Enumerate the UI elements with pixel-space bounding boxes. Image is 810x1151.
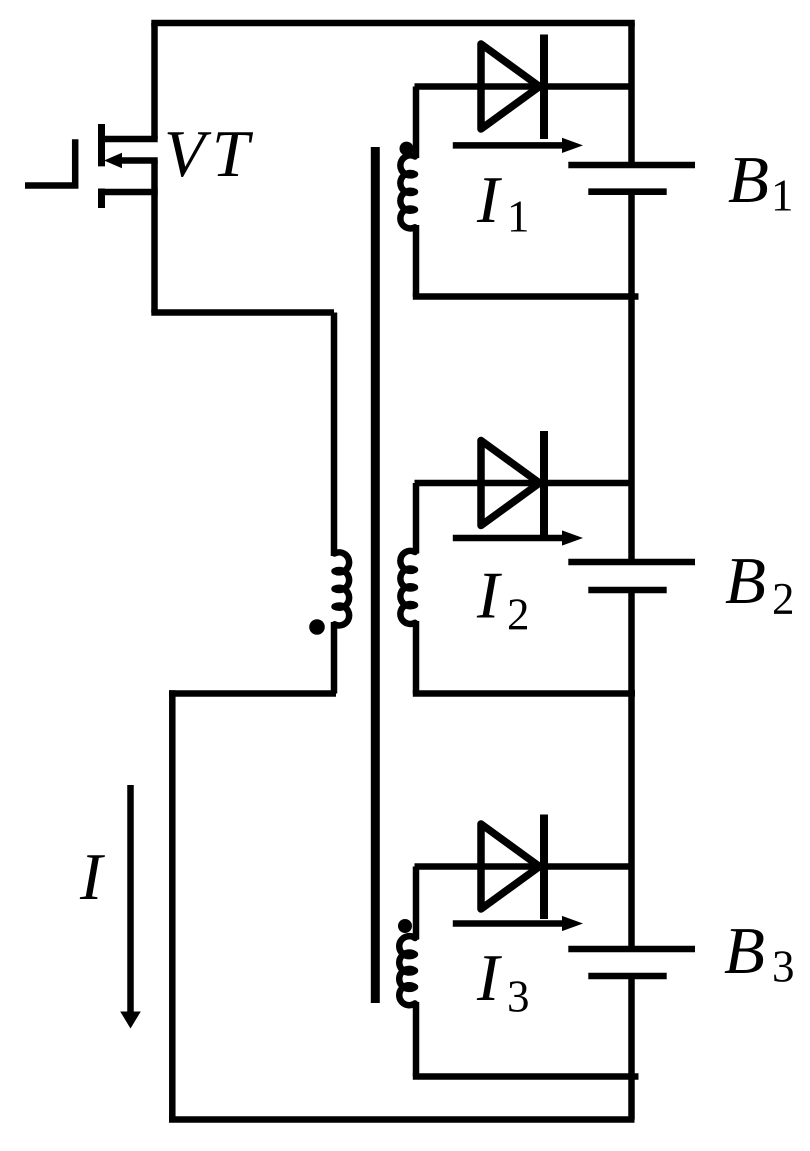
svg-text:I: I	[79, 840, 105, 914]
diode VD1 anode-cathode wire	[415, 83, 632, 90]
transformer secondary 3 phase dot	[398, 919, 412, 933]
transistor Q VT channel bar lower segment	[98, 189, 105, 209]
current arrow I1	[453, 142, 566, 149]
transistor Q VT drain stub	[99, 136, 158, 143]
wire source vertical	[151, 161, 158, 313]
svg-text:VT: VT	[164, 117, 256, 191]
svg-text:I: I	[476, 941, 502, 1015]
wire right rail segment 2	[628, 192, 635, 562]
battery B1 long plate	[568, 162, 695, 169]
svg-text:I: I	[476, 559, 502, 633]
transistor Q VT channel bar upper segment	[98, 124, 105, 166]
wire right rail segment 1	[628, 23, 635, 165]
current arrow I (main)	[127, 785, 134, 1013]
current arrow I2	[453, 535, 566, 542]
current arrow I3	[453, 920, 566, 927]
svg-text:1: 1	[771, 171, 794, 221]
svg-text:1: 1	[507, 192, 530, 242]
diode VD2 triangle	[481, 441, 540, 526]
battery B2 short plate	[588, 587, 666, 594]
wire loop 2 bottom	[413, 690, 635, 697]
transformer secondary winding L1	[400, 155, 415, 228]
svg-text:2: 2	[772, 574, 795, 624]
diode VD1 cathode bar	[540, 35, 548, 140]
transformer primary winding Lp	[335, 552, 350, 625]
wire right rail segment 4	[628, 976, 635, 1120]
diode VD2 cathode bar	[540, 431, 548, 536]
wire source horizontal to primary	[151, 309, 334, 316]
wire secondary 1 bottom lead	[413, 225, 420, 297]
svg-text:3: 3	[507, 972, 530, 1022]
wire secondary 1 top lead	[413, 87, 420, 159]
wire drain vertical	[151, 23, 158, 139]
diode VD1 triangle	[481, 44, 540, 129]
wire bottom-left horizontal	[169, 690, 336, 697]
wire secondary 3 bottom lead	[413, 1002, 420, 1077]
wire right rail segment 3	[628, 590, 635, 949]
transformer secondary winding L3	[399, 936, 415, 1005]
svg-text:3: 3	[772, 942, 795, 992]
wire loop 1 bottom	[413, 293, 639, 300]
wire bottom rail	[169, 1116, 635, 1123]
transformer primary phase dot	[309, 619, 325, 635]
svg-text:B: B	[724, 914, 765, 988]
diode VD3 triangle	[481, 824, 540, 909]
diode VD3 cathode bar	[540, 815, 548, 920]
diode VD3 anode-cathode wire	[415, 863, 632, 870]
wire down to primary winding	[331, 313, 338, 557]
transformer secondary winding L2	[400, 551, 415, 624]
svg-text:B: B	[725, 544, 766, 618]
wire left vertical	[169, 690, 176, 1119]
transistor Q VT source stub	[99, 189, 158, 196]
wire loop 3 bottom	[413, 1073, 639, 1080]
battery B2 long plate	[568, 559, 695, 566]
svg-text:I: I	[476, 163, 502, 237]
wire secondary 3 top lead	[413, 867, 420, 940]
wire secondary 2 bottom lead	[413, 621, 420, 694]
transistor Q VT body stub	[112, 157, 158, 164]
svg-text:B: B	[728, 143, 769, 217]
battery B3 short plate	[588, 973, 666, 980]
transistor Q VT body arrow	[104, 153, 122, 168]
wire secondary 2 top lead	[413, 483, 420, 554]
diode VD2 anode-cathode wire	[415, 480, 632, 487]
battery B3 long plate	[568, 946, 695, 953]
transistor Q VT gate lead wire	[25, 139, 75, 185]
wire below primary winding	[331, 622, 338, 694]
transformer secondary 1 phase dot	[400, 142, 414, 156]
transformer core	[371, 147, 380, 1003]
wire top rail	[151, 20, 635, 27]
svg-text:2: 2	[507, 590, 530, 640]
battery B1 short plate	[588, 188, 666, 195]
